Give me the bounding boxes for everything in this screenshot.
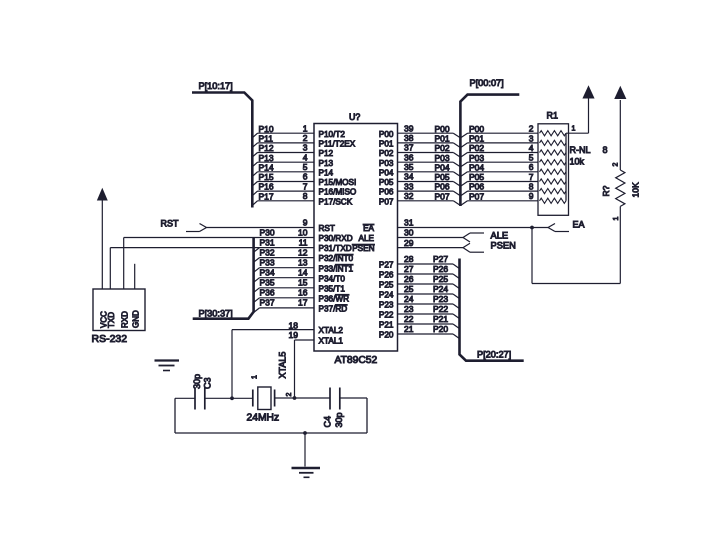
- svg-text:P10: P10: [259, 124, 274, 134]
- svg-text:P14: P14: [319, 168, 334, 177]
- wire P10 with bus entry, pin number 1: [252, 123, 314, 137]
- pin name P24 (pin 25): [379, 291, 394, 300]
- pin name P25 (pin 26): [379, 281, 394, 290]
- svg-text:P07: P07: [435, 191, 450, 201]
- pin name P00 (pin 39): [379, 130, 394, 139]
- op-amp U? AT89C52 microcontroller body: [314, 124, 398, 352]
- pin name P06 (pin 33): [379, 188, 394, 197]
- wire P00 chip side, pin number 39: [398, 123, 461, 137]
- pin name P05 (pin 34): [379, 178, 394, 187]
- pin name P27 (pin 28): [379, 261, 394, 270]
- wire P32 with bus entry, pin number 12: [254, 247, 314, 262]
- svg-text:8: 8: [529, 182, 534, 192]
- svg-text:P[20:27]: P[20:27]: [477, 350, 511, 360]
- svg-text:P04: P04: [379, 168, 394, 177]
- power VCC arrow above R1: [583, 87, 594, 99]
- bottom rail of crystal loop: [175, 432, 367, 434]
- wire P07 to resistor pack pin 9: [461, 191, 538, 205]
- svg-text:13: 13: [298, 258, 308, 268]
- R1 common rail: [565, 133, 567, 201]
- svg-text:P27: P27: [379, 261, 394, 270]
- resistor R1 element 2: [540, 140, 566, 145]
- wire P05 to resistor pack pin 7: [461, 172, 538, 186]
- wire from R2 to EA: [530, 226, 620, 284]
- crystal Y? 24MHz: [252, 375, 294, 410]
- svg-text:P12: P12: [259, 143, 274, 153]
- resistor R1 element 3: [540, 150, 566, 155]
- svg-text:RST: RST: [161, 219, 180, 229]
- svg-text:R1: R1: [547, 111, 559, 121]
- wire P04 chip side, pin number 35: [398, 162, 461, 176]
- pin name P15/MOSI (pin 6): [319, 178, 357, 187]
- svg-text:23: 23: [404, 304, 414, 314]
- pin name P17/SCK (pin 8): [319, 197, 353, 206]
- svg-text:6: 6: [529, 162, 534, 172]
- wire PSEN (pin 29) with net flag PSEN: [398, 238, 516, 252]
- bus P[00:07]: [460, 95, 519, 206]
- svg-text:2: 2: [529, 124, 534, 134]
- pin name P07 (pin 32): [379, 197, 394, 206]
- value 24MHz: [247, 413, 280, 424]
- svg-text:P21: P21: [433, 314, 448, 324]
- svg-text:P15/MOSI: P15/MOSI: [319, 178, 357, 187]
- svg-text:P14: P14: [259, 162, 274, 172]
- pin name P35/T1 (pin 15): [319, 284, 346, 293]
- ground stem below crystal loop: [303, 431, 307, 466]
- svg-text:P31: P31: [260, 237, 275, 247]
- svg-text:P01: P01: [435, 134, 450, 144]
- svg-text:P34: P34: [260, 268, 275, 278]
- C3 labels 30p C3 (rotated): [192, 374, 213, 389]
- svg-text:C4: C4: [323, 416, 333, 428]
- pin name P02 (pin 37): [379, 149, 394, 158]
- svg-text:P22: P22: [433, 304, 448, 314]
- wire P01 to resistor pack pin 3: [461, 133, 538, 147]
- svg-text:P[10:17]: P[10:17]: [199, 81, 233, 91]
- svg-text:3: 3: [303, 143, 308, 153]
- resistor R2 10K pull-up on EA: [616, 170, 625, 206]
- wire P07 chip side, pin number 32: [398, 191, 461, 205]
- resistor R1 element 1: [540, 131, 566, 136]
- wire P22 with bus entry, pin number 23: [398, 304, 460, 319]
- bus P[10:17]: [192, 93, 252, 208]
- svg-text:P00: P00: [379, 130, 394, 139]
- wire XTAL2 (pin 18): [232, 321, 314, 399]
- capacitor C3 30p: [195, 388, 205, 410]
- svg-text:10K: 10K: [631, 182, 641, 197]
- R2 pin 2 stem to VCC: [613, 100, 621, 170]
- wire P30/RXD from RS-232 to pin 10: [124, 237, 314, 239]
- svg-text:1: 1: [252, 375, 259, 379]
- wire C3 to crystal with junction: [205, 396, 253, 400]
- resistor R1 element 4: [540, 160, 566, 165]
- svg-text:11: 11: [299, 237, 308, 247]
- svg-text:EA: EA: [363, 224, 374, 233]
- svg-text:P02: P02: [469, 143, 484, 153]
- svg-text:25: 25: [404, 284, 414, 294]
- wire P25 with bus entry, pin number 26: [398, 274, 460, 289]
- wire P20 with bus entry, pin number 21: [398, 324, 460, 339]
- svg-text:P25: P25: [379, 281, 394, 290]
- svg-text:7: 7: [303, 181, 308, 191]
- svg-text:RXD: RXD: [120, 311, 129, 328]
- pin name P26 (pin 27): [379, 271, 394, 280]
- wire P31 with bus entry, pin number 11: [254, 237, 314, 252]
- designator R1: [547, 111, 559, 121]
- svg-text:19: 19: [289, 330, 299, 340]
- svg-text:P37: P37: [260, 298, 275, 308]
- svg-text:U?: U?: [349, 112, 360, 122]
- svg-text:P32: P32: [260, 247, 275, 257]
- svg-text:P11/T2EX: P11/T2EX: [319, 140, 356, 149]
- svg-text:24: 24: [404, 294, 414, 304]
- svg-text:39: 39: [404, 123, 414, 133]
- wire P35 with bus entry, pin number 15: [254, 278, 314, 293]
- svg-text:P05: P05: [379, 178, 394, 187]
- left rail of crystal loop: [174, 398, 176, 433]
- svg-text:15: 15: [298, 278, 308, 288]
- bus P[20:27]: [460, 259, 524, 361]
- svg-text:P02: P02: [379, 149, 394, 158]
- svg-text:RS-232: RS-232: [92, 333, 128, 345]
- svg-text:AT89C52: AT89C52: [335, 355, 378, 366]
- svg-text:P12: P12: [319, 149, 334, 158]
- value label 10k: [570, 157, 585, 167]
- pin name P13 (pin 4): [319, 159, 334, 168]
- pin name P10/T2 (pin 1): [319, 130, 346, 139]
- svg-text:P36: P36: [260, 288, 275, 298]
- net label XTAL5 (rotated): [278, 352, 288, 379]
- pin name RST (pin 9): [319, 224, 335, 233]
- svg-text:P20: P20: [433, 324, 448, 334]
- svg-text:5: 5: [303, 162, 308, 172]
- wire crystal to C4 with junction: [275, 396, 330, 400]
- svg-text:6: 6: [303, 172, 308, 182]
- wire P16 with bus entry, pin number 7: [252, 181, 314, 195]
- wire P06 to resistor pack pin 8: [461, 182, 538, 196]
- svg-text:27: 27: [404, 264, 414, 274]
- svg-text:12: 12: [298, 247, 308, 257]
- svg-text:7: 7: [529, 172, 534, 182]
- bus label P[00:07]: [470, 78, 504, 88]
- wire P12 with bus entry, pin number 3: [252, 143, 314, 157]
- svg-text:C3: C3: [203, 377, 213, 389]
- wire RS-232 pin 2 to P31 row: [109, 248, 111, 289]
- svg-text:8: 8: [303, 191, 308, 201]
- wire P24 with bus entry, pin number 25: [398, 284, 460, 299]
- wire P31/TXD from RS-232 to pin 11: [110, 247, 259, 249]
- pin name P11/T2EX (pin 2): [319, 140, 356, 149]
- svg-text:P[00:07]: P[00:07]: [470, 78, 504, 88]
- pin name ALE (pin 30): [359, 234, 375, 243]
- resistor R1 element 7: [540, 189, 566, 194]
- svg-text:22: 22: [404, 314, 414, 324]
- svg-text:10k: 10k: [570, 157, 585, 167]
- svg-text:P36/WR: P36/WR: [319, 294, 350, 303]
- wire P01 chip side, pin number 38: [398, 133, 461, 147]
- pin name P23 (pin 24): [379, 301, 394, 310]
- svg-text:36: 36: [404, 152, 414, 162]
- pin name P04 (pin 35): [379, 168, 394, 177]
- wire P30 with bus entry, pin number 10: [260, 227, 308, 237]
- svg-text:P37/RD: P37/RD: [319, 305, 348, 314]
- pin name EA (pin 31): [363, 224, 374, 233]
- wire P06 chip side, pin number 33: [398, 181, 461, 195]
- svg-text:4: 4: [303, 152, 308, 162]
- svg-text:XTAL1: XTAL1: [319, 337, 344, 346]
- wire P34 with bus entry, pin number 14: [254, 268, 314, 283]
- svg-text:P16: P16: [259, 182, 274, 192]
- pin name XTAL2 (pin 18): [319, 326, 344, 335]
- wire C4 to right rail: [340, 397, 367, 399]
- svg-text:P25: P25: [433, 274, 448, 284]
- wire P36 with bus entry, pin number 16: [254, 288, 314, 303]
- wire RS-232 pin 3 to P30 row: [123, 238, 125, 290]
- svg-text:P15: P15: [259, 172, 274, 182]
- svg-text:37: 37: [404, 143, 414, 153]
- wire P14 with bus entry, pin number 5: [252, 162, 314, 176]
- RS-232 pin texts: [99, 310, 140, 328]
- wire VCC to RS-232 pin 1: [101, 200, 103, 289]
- wire P11 with bus entry, pin number 2: [252, 133, 314, 147]
- wire P26 with bus entry, pin number 27: [398, 264, 460, 279]
- svg-text:GND: GND: [131, 310, 140, 328]
- right rail of crystal loop: [366, 398, 368, 433]
- connector RS-232 body: [93, 289, 145, 331]
- svg-text:21: 21: [404, 324, 414, 334]
- svg-text:P05: P05: [435, 172, 450, 182]
- wire P04 to resistor pack pin 6: [461, 162, 538, 176]
- wire P17 with bus entry, pin number 8: [252, 191, 314, 205]
- pin name P34/T0 (pin 14): [319, 274, 346, 283]
- svg-text:P23: P23: [433, 294, 448, 304]
- pin name P36/WR (pin 16): [319, 294, 350, 303]
- pin name P01 (pin 38): [379, 140, 394, 149]
- svg-text:3: 3: [529, 133, 534, 143]
- svg-text:P24: P24: [433, 284, 448, 294]
- wire P37 with bus entry, pin number 17: [254, 298, 314, 313]
- svg-text:2: 2: [303, 133, 308, 143]
- wire P03 to resistor pack pin 5: [461, 153, 538, 167]
- svg-text:16: 16: [298, 288, 308, 298]
- svg-text:TXD: TXD: [107, 312, 116, 328]
- svg-text:30: 30: [404, 228, 414, 238]
- wire left rail to C3: [175, 397, 195, 399]
- wire P13 with bus entry, pin number 4: [252, 152, 314, 166]
- bus label P[20:27]: [477, 350, 511, 360]
- power VCC arrow above R2: [615, 87, 626, 99]
- pin name P30/RXD (pin 10): [319, 234, 353, 243]
- svg-text:P34/T0: P34/T0: [319, 274, 346, 283]
- svg-text:28: 28: [404, 254, 414, 264]
- svg-text:P[30:37]: P[30:37]: [199, 309, 233, 319]
- svg-text:P03: P03: [469, 153, 484, 163]
- pin name P12 (pin 3): [319, 149, 334, 158]
- wire P23 with bus entry, pin number 24: [398, 294, 460, 309]
- wire P02 chip side, pin number 37: [398, 143, 461, 157]
- svg-text:1: 1: [613, 217, 620, 221]
- svg-text:P26: P26: [433, 264, 448, 274]
- value 10K (rotated): [631, 182, 641, 197]
- svg-text:PSEN: PSEN: [491, 241, 516, 251]
- svg-text:P13: P13: [259, 153, 274, 163]
- svg-text:9: 9: [529, 191, 534, 201]
- wire ALE (pin 30) with net flag ALE: [398, 228, 509, 242]
- wire EA (pin 31) with net flag EA: [398, 218, 585, 232]
- svg-text:EA: EA: [573, 220, 585, 230]
- svg-text:9: 9: [303, 218, 308, 228]
- svg-text:P17/SCK: P17/SCK: [319, 197, 353, 206]
- svg-text:P30/RXD: P30/RXD: [319, 234, 353, 243]
- svg-text:P00: P00: [435, 124, 450, 134]
- svg-text:P02: P02: [435, 143, 450, 153]
- svg-text:P07: P07: [379, 197, 394, 206]
- svg-text:PSEN: PSEN: [352, 244, 374, 253]
- svg-text:R-NL: R-NL: [570, 145, 591, 155]
- svg-text:30p: 30p: [192, 374, 202, 389]
- wire P27 with bus entry, pin number 28: [398, 254, 460, 269]
- svg-text:5: 5: [529, 153, 534, 163]
- svg-text:26: 26: [404, 274, 414, 284]
- svg-text:P26: P26: [379, 271, 394, 280]
- svg-text:P16/MISO: P16/MISO: [319, 188, 357, 197]
- svg-text:4: 4: [529, 143, 534, 153]
- pin name P20 (pin 21): [379, 331, 394, 340]
- svg-text:P01: P01: [469, 134, 484, 144]
- svg-text:P32/INT0: P32/INT0: [319, 254, 354, 263]
- svg-text:P13: P13: [319, 159, 334, 168]
- net flag RST and wire to pin 9: [161, 218, 315, 232]
- pin name P16/MISO (pin 7): [319, 188, 357, 197]
- C4 labels C4 30p (rotated): [323, 412, 345, 427]
- svg-text:ALE: ALE: [491, 231, 509, 241]
- svg-text:35: 35: [404, 162, 414, 172]
- R2 pin 1 stem: [613, 206, 620, 283]
- label RS-232: [92, 333, 128, 345]
- capacitor C4 30p: [330, 388, 340, 410]
- svg-text:P35: P35: [260, 278, 275, 288]
- ground symbol below crystal loop: [292, 468, 321, 477]
- svg-text:XTAL5: XTAL5: [278, 352, 288, 379]
- svg-text:31: 31: [404, 218, 414, 228]
- ground symbol near RS-232: [155, 361, 180, 371]
- part value AT89C52: [335, 355, 378, 366]
- wire P05 chip side, pin number 34: [398, 172, 461, 186]
- pin name P33/INT1 (pin 13): [319, 264, 354, 273]
- svg-text:P06: P06: [379, 188, 394, 197]
- svg-text:P30: P30: [260, 227, 275, 237]
- wire P00 to resistor pack pin 2: [461, 124, 538, 138]
- svg-text:34: 34: [404, 172, 414, 182]
- svg-text:24MHz: 24MHz: [247, 413, 280, 424]
- svg-text:14: 14: [298, 268, 308, 278]
- svg-text:18: 18: [289, 321, 299, 331]
- svg-text:P10/T2: P10/T2: [319, 130, 346, 139]
- pin name P37/RD (pin 17): [319, 305, 348, 314]
- svg-text:P27: P27: [433, 254, 448, 264]
- svg-text:P07: P07: [469, 191, 484, 201]
- pin name P03 (pin 36): [379, 159, 394, 168]
- svg-text:30p: 30p: [334, 412, 344, 427]
- svg-text:1: 1: [303, 123, 308, 133]
- svg-text:8: 8: [603, 145, 608, 155]
- svg-text:P22: P22: [379, 311, 394, 320]
- svg-text:RST: RST: [319, 224, 335, 233]
- svg-text:P06: P06: [469, 182, 484, 192]
- svg-text:33: 33: [404, 181, 414, 191]
- bus P[30:37]: [193, 238, 254, 319]
- svg-text:32: 32: [404, 191, 414, 201]
- svg-text:P33/INT1: P33/INT1: [319, 264, 354, 273]
- R1 pin 1 wire to VCC: [566, 98, 589, 133]
- wire P15 with bus entry, pin number 6: [252, 172, 314, 186]
- pin name P32/INT0 (pin 12): [319, 254, 354, 263]
- svg-text:38: 38: [404, 133, 414, 143]
- svg-text:P00: P00: [469, 124, 484, 134]
- svg-text:P23: P23: [379, 301, 394, 310]
- svg-text:P24: P24: [379, 291, 394, 300]
- resistor pack R1 body: [538, 124, 569, 216]
- designator U?: [349, 112, 360, 122]
- svg-text:P06: P06: [435, 182, 450, 192]
- svg-text:P35/T1: P35/T1: [319, 284, 346, 293]
- power VCC arrow above RS-232: [98, 189, 107, 200]
- svg-text:R?: R?: [601, 185, 611, 196]
- wire P33 with bus entry, pin number 13: [254, 258, 314, 273]
- svg-text:XTAL2: XTAL2: [319, 326, 344, 335]
- bus label P[30:37]: [199, 309, 233, 319]
- svg-text:10: 10: [298, 227, 308, 237]
- svg-text:P17: P17: [259, 191, 274, 201]
- svg-text:P20: P20: [379, 331, 394, 340]
- wire P02 to resistor pack pin 4: [461, 143, 538, 157]
- wire XTAL1 (pin 19): [289, 330, 314, 398]
- svg-text:P11: P11: [259, 134, 274, 144]
- svg-text:2: 2: [286, 393, 293, 397]
- pin name P14 (pin 5): [319, 168, 334, 177]
- bus label P[10:17]: [199, 81, 233, 91]
- resistor R1 element 5: [540, 169, 566, 174]
- wire P21 with bus entry, pin number 22: [398, 314, 460, 329]
- svg-text:P31/TXD: P31/TXD: [319, 244, 352, 253]
- wire P03 chip side, pin number 36: [398, 152, 461, 166]
- svg-text:1: 1: [572, 126, 576, 133]
- pin name PSEN (pin 29): [352, 244, 374, 253]
- svg-text:P03: P03: [379, 159, 394, 168]
- svg-text:P04: P04: [435, 162, 450, 172]
- svg-text:29: 29: [404, 238, 414, 248]
- svg-text:P05: P05: [469, 172, 484, 182]
- svg-text:P03: P03: [435, 153, 450, 163]
- value label R-NL 8: [570, 145, 608, 155]
- resistor R1 element 8: [540, 198, 566, 203]
- svg-text:P01: P01: [379, 140, 394, 149]
- resistor R1 element 6: [540, 179, 566, 184]
- svg-text:P21: P21: [379, 321, 394, 330]
- stub RS-232 pin 4: [134, 264, 136, 289]
- pin name XTAL1 (pin 19): [319, 337, 344, 346]
- svg-text:2: 2: [613, 163, 620, 167]
- svg-text:P04: P04: [469, 162, 484, 172]
- pin name P31/TXD (pin 11): [319, 244, 352, 253]
- svg-text:ALE: ALE: [359, 234, 375, 243]
- pin name P21 (pin 22): [379, 321, 394, 330]
- svg-text:17: 17: [298, 298, 308, 308]
- designator R2 (rotated): [601, 185, 611, 196]
- svg-text:P33: P33: [260, 258, 275, 268]
- pin name P22 (pin 23): [379, 311, 394, 320]
